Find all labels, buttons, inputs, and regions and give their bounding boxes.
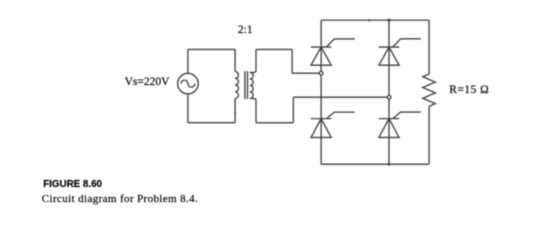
speck on top rail: [368, 19, 370, 21]
resistor R: [423, 74, 436, 106]
thyristor T3 gate lead: [326, 112, 354, 119]
wire: right column above resistor: [428, 20, 430, 74]
source VS sine symbol: [181, 80, 195, 87]
thyristor T1 triangle: [311, 47, 331, 65]
inductor: transformer primary winding: [235, 72, 238, 99]
thyristor T4 gate lead: [393, 112, 421, 119]
wire: transformer primary bottom lead: [234, 98, 236, 122]
node A (open terminal circle on left bridge leg): [319, 71, 323, 75]
junction dot: middle column at top rail: [388, 19, 391, 22]
wire: transformer primary top lead: [234, 49, 236, 71]
speck on primary bottom lead: [234, 112, 236, 114]
wire: bridge bottom rail: [321, 163, 429, 165]
thyristor T2 triangle: [379, 47, 399, 65]
wire: primary loop left vertical below source: [187, 94, 189, 123]
junction dot: middle column at bottom rail: [388, 163, 391, 166]
thyristor T3 cathode bar: [311, 118, 331, 120]
wire: bridge left column: [320, 20, 322, 164]
node B (open terminal circle on middle bridge leg): [387, 95, 391, 99]
transformer core line 1: [244, 71, 246, 99]
thyristor T2 gate lead: [393, 39, 421, 47]
svg-text:Circuit diagram for Problem 8.: Circuit diagram for Problem 8.4.: [42, 193, 198, 205]
transformer core line 2: [247, 71, 249, 99]
svg-text:2:1: 2:1: [238, 24, 253, 36]
wire: primary loop top rail: [188, 48, 235, 50]
wire: bridge top rail: [321, 19, 429, 21]
wire: primary loop bottom rail: [188, 122, 235, 124]
wire: transformer secondary top lead: [250, 49, 256, 72]
wire: transformer secondary bottom lead: [250, 98, 256, 122]
thyristor T3 triangle: [311, 119, 331, 138]
inductor: transformer secondary winding: [250, 72, 253, 98]
thyristor T4 triangle: [379, 119, 399, 138]
wire: primary loop left vertical above source: [187, 49, 189, 73]
wire: secondary top horizontal to jog: [256, 48, 292, 50]
wire: secondary top jog down: [291, 49, 293, 73]
wire: into node B: [293, 96, 387, 98]
wire: into node A: [292, 72, 319, 74]
thyristor T2 cathode bar: [379, 46, 399, 48]
thyristor T1 gate lead: [326, 39, 354, 47]
wire: right column below resistor: [428, 106, 430, 164]
svg-text:R=15 Ω: R=15 Ω: [449, 84, 489, 96]
wire: secondary bottom jog up: [292, 97, 294, 123]
source VS (AC source circle): [178, 73, 199, 94]
wire: secondary bottom horizontal to jog: [256, 122, 293, 124]
wire: bridge middle column: [388, 20, 390, 164]
svg-text:Vs=220V: Vs=220V: [125, 76, 171, 88]
thyristor T4 cathode bar: [379, 118, 399, 120]
thyristor T1 cathode bar: [311, 46, 331, 48]
svg-text:FIGURE 8.60: FIGURE 8.60: [43, 179, 102, 190]
